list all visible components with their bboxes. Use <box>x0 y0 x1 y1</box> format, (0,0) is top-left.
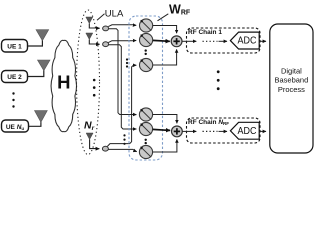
ADC 1 <box>230 32 259 49</box>
phase shifter PS top1 <box>140 19 153 32</box>
svg-text:Digital: Digital <box>281 66 302 75</box>
svg-text:RF Chain NRF: RF Chain NRF <box>188 119 229 126</box>
svg-text:H: H <box>57 71 70 92</box>
RF chain N dashed box <box>187 118 261 143</box>
wire A3 to PS bottom3 <box>109 149 136 151</box>
port circle A1 <box>103 26 109 31</box>
wire ADC2 to DBP <box>259 130 266 132</box>
phase shifter PS bottom1 <box>139 108 152 121</box>
wire PS bottom2 to combiner2 <box>153 128 168 131</box>
wire ADC1 to DBP <box>259 40 266 42</box>
dotted omission chain1 <box>203 40 218 42</box>
wire PS top2 to combiner1 <box>153 39 168 42</box>
RF chain 1 dashed box <box>187 28 261 53</box>
UE Nu box <box>2 120 29 132</box>
port circle A3 <box>102 146 108 151</box>
phase shifter PS bottom2 <box>139 122 152 135</box>
UE 1 box <box>2 40 28 53</box>
WRF label <box>158 2 191 20</box>
svg-text:Process: Process <box>278 85 305 94</box>
dots between UEs <box>12 92 14 107</box>
wire PS top3 to combiner1 <box>153 51 177 66</box>
svg-text:ADC: ADC <box>238 35 257 47</box>
dots between ULA antennas <box>93 79 96 97</box>
wire PS bottom3 to combiner2 <box>153 141 177 153</box>
dots between RF chains <box>217 70 220 90</box>
wire A2 down to PS bottom2 <box>109 45 134 129</box>
dots left of WRF box bottom <box>123 134 125 145</box>
dots between PS top2 and top3 <box>145 49 147 55</box>
svg-text:RF Chain 1: RF Chain 1 <box>188 29 222 36</box>
svg-text:ULA: ULA <box>105 9 124 20</box>
wire combiner2 into chain <box>182 130 196 132</box>
dotted omission chain2 <box>203 130 218 132</box>
wire UE1 to antenna <box>28 40 42 46</box>
ULA antenna 1 triangle <box>86 17 93 24</box>
phase shifter PS bottom3 <box>139 145 152 158</box>
UE2 antenna triangle <box>38 60 51 71</box>
svg-text:UE 2: UE 2 <box>7 74 22 81</box>
wire combiner1 into chain <box>182 40 196 42</box>
ULA dotted ellipse <box>77 10 100 155</box>
UE 2 box <box>2 71 28 83</box>
wire UE2 to antenna <box>28 70 44 77</box>
UE Nu antenna triangle <box>35 111 48 123</box>
ULA label <box>97 9 124 21</box>
phase shifter PS top2 <box>140 33 153 46</box>
wire A3 up to PS top3 <box>107 65 134 146</box>
wire UENu to antenna <box>29 122 41 127</box>
wire into ADC2 <box>219 130 228 132</box>
wire A1 to PS top1 <box>108 25 133 27</box>
svg-text:UE Nu: UE Nu <box>6 124 25 131</box>
wire antenna1 to port <box>89 24 98 29</box>
dots between PS bottom2 and bottom3 <box>145 139 147 145</box>
wire antennaNr to port <box>90 140 98 149</box>
wire PS top1 to combiner1 <box>153 26 177 32</box>
svg-text:ADC: ADC <box>238 125 257 137</box>
wire A2 to PS top2 <box>108 41 133 43</box>
port circle A2 <box>103 42 109 47</box>
combiner U1 (+) <box>171 36 182 47</box>
phase shifter PS top3 <box>140 58 153 71</box>
wire into ADC1 <box>219 40 228 42</box>
WRF dashed box <box>129 16 163 160</box>
Digital Baseband Process box <box>270 24 313 153</box>
dots left of WRF box top <box>126 58 128 67</box>
svg-text:UE 1: UE 1 <box>7 44 22 51</box>
ULA antenna Nr triangle <box>86 133 93 140</box>
wire PS bottom1 to combiner2 <box>153 115 177 122</box>
wire A1 down to PS bottom1 <box>109 29 134 115</box>
UE1 antenna triangle <box>36 30 49 41</box>
channel cloud H <box>51 40 77 131</box>
svg-text:Baseband: Baseband <box>275 76 309 85</box>
ULA antenna 2 triangle <box>86 33 93 40</box>
wire antenna2 to port <box>89 40 98 45</box>
combiner U2 (+) <box>172 126 183 137</box>
ADC 2 <box>230 122 259 139</box>
